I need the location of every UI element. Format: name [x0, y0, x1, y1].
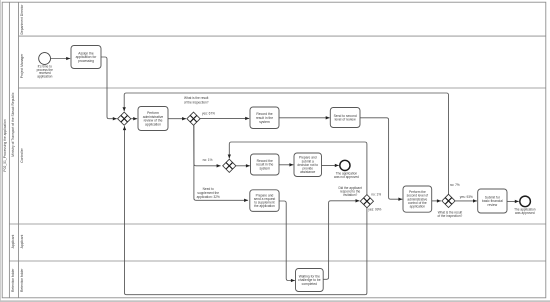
- svg-text:The applicationwas not approve: The applicationwas not approved: [334, 171, 359, 179]
- task Record the result in the system (row1): [250, 107, 279, 129]
- svg-text:yes: 93%: yes: 93%: [460, 195, 473, 199]
- wire gateway C -> Record the result (row2): [236, 164, 250, 167]
- wire Waiting task -> gateway D: [323, 199, 359, 279]
- wire gateway E yes 93% -> Submit for basic financial review: [455, 195, 477, 203]
- wire gateway B need-to-supplement 32% -> Prepare and send a request: [194, 125, 248, 202]
- wire Prepare request -> Waiting task: [279, 201, 295, 282]
- svg-text:Send to secondlevel of review: Send to secondlevel of review: [334, 114, 357, 122]
- task Waiting for the challenge to be completed: [296, 269, 324, 292]
- wire Submit -> end event (approved): [507, 200, 519, 203]
- wire Record row1 -> Send to second level: [279, 116, 330, 119]
- wire Record row2 -> Prepare and submit a decision: [279, 163, 293, 166]
- svg-text:Controller: Controller: [20, 147, 24, 162]
- svg-text:no: 7%: no: 7%: [450, 183, 460, 187]
- wire gateway A -> Perform administrative review: [131, 117, 137, 120]
- svg-text:Retention folder: Retention folder: [20, 268, 24, 292]
- lane header divider x=18.5: [17, 2, 20, 298]
- gateway B: What is the result of the inspection?: [184, 96, 209, 125]
- end event: The application was approved: [514, 196, 536, 215]
- wire gateway B no 1% -> gateway C: [194, 125, 221, 167]
- task Send to second level of review: [330, 108, 360, 128]
- start event: It's time to process the received application: [37, 53, 54, 79]
- lane header divider x=9.5: [8, 2, 11, 298]
- svg-text:yes: 67%: yes: 67%: [202, 112, 215, 116]
- lane Applicant (inner): [10, 235, 546, 261]
- wire Prepare decision -> end event (not approved): [322, 164, 339, 167]
- svg-text:Perform thesecond level ofadmi: Perform thesecond level ofadministrative…: [407, 190, 429, 209]
- gateway D: Did the applicant respond to the invitation?: [338, 186, 373, 208]
- task Prepare and submit a decision not to provide assistance: [294, 153, 322, 177]
- task Record the result in the system (row2): [251, 154, 280, 175]
- svg-text:Retention folder: Retention folder: [11, 268, 15, 292]
- wire gateway D yes 99% -> gateway A (bottom loop): [123, 126, 382, 295]
- task Assign the application for processing: [71, 46, 101, 69]
- svg-text:The applicationwas approved: The applicationwas approved: [514, 207, 536, 215]
- svg-text:Project Manager: Project Manager: [20, 53, 24, 78]
- screenshot bottom edge strip: [0, 300, 550, 302]
- wire gateway B yes 67% -> Record the result (row1): [200, 112, 249, 120]
- svg-text:Ministry of Transport of the S: Ministry of Transport of the Slovak Repu…: [11, 92, 15, 157]
- lane Controller: [10, 147, 546, 224]
- svg-text:no: 1%: no: 1%: [371, 193, 381, 197]
- gateway C (merge): [223, 159, 236, 172]
- screenshot left edge strip: [0, 0, 2, 302]
- gateway E: What is the result of the inspection?: [438, 194, 463, 218]
- wire gateway D no 1% -> gateway C (top): [228, 142, 382, 197]
- svg-text:Applicant: Applicant: [20, 235, 24, 249]
- svg-text:Department Director: Department Director: [20, 4, 24, 35]
- task Perform the second level of administrative control of the application: [403, 186, 432, 212]
- wire Assign task -> gateway A: [101, 57, 117, 120]
- svg-text:Prepare andsubmit adecision no: Prepare andsubmit adecision not toprovid…: [297, 156, 318, 174]
- lane Applicant (outer): [11, 235, 15, 249]
- svg-text:What is the resultof the inspe: What is the resultof the inspection?: [184, 96, 209, 104]
- lane Retention folder (inner): [20, 268, 24, 292]
- lane Ministry of Transport of the Slovak Republic: [11, 92, 15, 157]
- wire Perform second level -> gateway E: [432, 199, 441, 202]
- svg-text:P02_01_Processing the applicat: P02_01_Processing the application: [3, 119, 7, 171]
- svg-text:yes: 99%: yes: 99%: [368, 207, 381, 211]
- task Submit for basic financial review: [478, 189, 507, 213]
- wire start -> Assign task: [51, 57, 71, 60]
- end event: The application was not approved: [334, 160, 359, 179]
- wire Send to second level -> Perform the second level task: [360, 118, 402, 201]
- wire gateway E no 7% -> gateway A (top loop): [123, 93, 460, 194]
- svg-text:no: 1%: no: 1%: [203, 158, 213, 162]
- svg-text:Prepare andsend a requestto su: Prepare andsend a requestto supplementth…: [254, 193, 275, 208]
- task Perform administrative review of the application: [138, 107, 168, 131]
- gateway A (merge): [118, 112, 131, 125]
- task Prepare and send a request to supplement the application: [250, 190, 279, 212]
- svg-text:It's time toprocess thereceive: It's time toprocess thereceivedapplicati…: [37, 65, 54, 79]
- wire Perform review -> gateway B: [168, 117, 186, 120]
- lane Retention folder (outer): [11, 268, 15, 292]
- svg-text:What is the resultof the inspe: What is the resultof the inspection?: [438, 210, 463, 218]
- lane Project Manager: [19, 53, 546, 88]
- svg-text:Applicant: Applicant: [11, 235, 15, 249]
- lane Department Director: [19, 4, 546, 36]
